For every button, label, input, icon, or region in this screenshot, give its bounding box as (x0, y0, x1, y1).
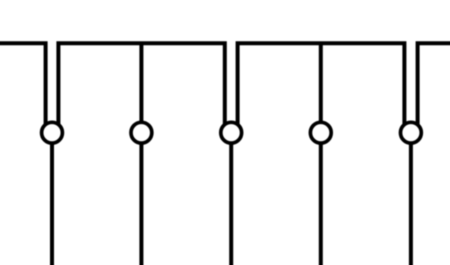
terminal circle node 5 (401, 122, 422, 143)
wire bus segment 3 (tap 3 up-lead to tap 5 down-lead) (238, 43, 405, 124)
wire device lead below node 5 (409, 143, 413, 265)
terminal circle node 3 (221, 122, 242, 143)
wire device lead below node 3 (229, 143, 233, 265)
wire bus segment 1 (left edge to tap 1 down-lead) (0, 43, 46, 124)
wire bus segment 4 (tap 5 up-lead to right edge) (418, 43, 450, 124)
wire device lead below node 1 (50, 143, 54, 265)
terminal circle node 1 (42, 122, 63, 143)
wire tap 4 drop from bus (319, 43, 323, 122)
wire device lead below node 2 (139, 143, 143, 265)
wire tap 2 drop from bus (139, 43, 143, 122)
wire device lead below node 4 (319, 143, 323, 265)
terminal circle node 2 (131, 122, 152, 143)
terminal circle node 4 (310, 122, 331, 143)
wire bus segment 2 (tap 1 up-lead to tap 3 down-lead) (58, 43, 224, 124)
